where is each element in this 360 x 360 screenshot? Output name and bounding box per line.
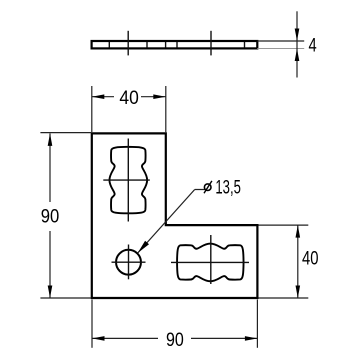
hole circle d13.5	[116, 250, 141, 275]
side view slot edge line (left slot bulge right)	[146, 42, 148, 48]
dim 90 left: bottom extension line	[40, 297, 91, 299]
svg-text:90: 90	[41, 206, 60, 228]
leader line diagonal	[138, 190, 195, 254]
arrow dim 4 lower	[295, 49, 300, 62]
svg-text:40: 40	[302, 248, 319, 270]
dim 90 left: bottom arrow	[48, 286, 53, 299]
dim 90 bottom: dimension line left segment	[92, 337, 158, 339]
dim 90 left: dimension line lower segment	[49, 231, 51, 298]
dim 90 left: top extension line	[40, 132, 91, 134]
vertical slot vertical centerline	[127, 139, 129, 222]
dim 40 top: dimension line left segment	[92, 96, 114, 98]
hole horizontal centerline	[112, 261, 146, 263]
dimension line 4	[296, 11, 298, 77]
dim 90 bottom: right arrow	[245, 336, 258, 341]
svg-text:90: 90	[166, 329, 184, 351]
side view plate outline (4 thick)	[92, 41, 258, 48]
arrow dim 4 upper	[295, 29, 300, 42]
dim 90 bottom: left arrow	[92, 336, 105, 341]
dim 40 right: bottom extension line	[259, 297, 309, 299]
dim 90 left: top arrow	[48, 133, 53, 146]
side view slot edge line (right slot left end)	[176, 42, 178, 48]
L-plate outline	[92, 133, 258, 298]
leader arrow at hole	[138, 241, 149, 253]
vertical slot outline	[109, 147, 147, 214]
horizontal slot vertical centerline	[210, 235, 212, 284]
horizontal slot horizontal centerline	[171, 261, 249, 263]
dim 40 right: bottom arrow	[296, 286, 301, 299]
vertical slot horizontal centerline	[103, 179, 150, 181]
dim 40 right: top arrow	[296, 225, 301, 238]
dim 40 right: top extension line	[259, 224, 309, 226]
dim 90 bottom: dimension line right segment	[191, 337, 257, 339]
extension line top face for dim 4	[257, 40, 304, 42]
side view centerline of vertical slot	[127, 31, 129, 56]
dim 40 top: right arrow	[153, 94, 166, 99]
svg-text:4: 4	[309, 35, 317, 57]
side view slot edge line (right slot right end)	[244, 42, 246, 48]
dim 40 top: dimension line right segment	[141, 96, 166, 98]
diameter symbol circle	[204, 184, 211, 191]
dim 90 bottom: left extension line	[91, 300, 93, 348]
side view slot edge line (left slot bulge left)	[108, 42, 110, 48]
hole vertical centerline	[128, 245, 130, 280]
dim 40 top: left arrow	[92, 94, 105, 99]
svg-text:40: 40	[119, 87, 139, 109]
dim 40 top: right extension line	[165, 86, 167, 132]
dim 40 top: left extension line	[91, 86, 93, 132]
dim 90 bottom: right extension line	[256, 300, 258, 348]
side view inner corner edge line	[165, 42, 167, 48]
side view centerline of horizontal slot	[210, 31, 212, 56]
horizontal slot outline	[177, 244, 244, 282]
svg-text:13,5: 13,5	[215, 177, 241, 199]
dim 40 right: dimension line	[297, 225, 299, 298]
leader line landing	[195, 189, 206, 191]
diameter symbol slash	[204, 181, 212, 193]
dim 90 left: dimension line upper segment	[49, 133, 51, 202]
extension line bottom face for dim 4	[257, 48, 304, 50]
